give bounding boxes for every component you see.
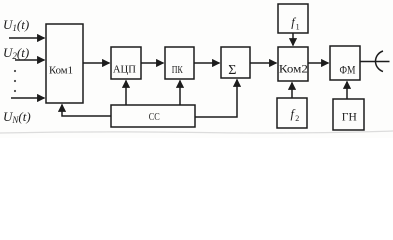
svg-text:UN(t): UN(t) (3, 109, 31, 125)
wire f1 to Kom2 (292, 33, 294, 46)
svg-text:АЦП: АЦП (113, 63, 136, 75)
block ADC (АЦП) (111, 47, 141, 79)
svg-text:1: 1 (296, 23, 300, 32)
block f1 (278, 4, 308, 33)
block Kom2 (278, 47, 308, 81)
antenna arc (375, 51, 383, 72)
block GN (ГН) (333, 99, 364, 130)
wire ADC to PK (141, 62, 164, 64)
faint scan streak (0, 131, 393, 133)
block Sigma (221, 47, 250, 78)
wire Kom2 to FM (308, 62, 329, 64)
wire input UN (11, 97, 45, 99)
block Kom1 (46, 24, 83, 103)
svg-text:U1(t): U1(t) (3, 17, 29, 33)
svg-text:Σ: Σ (228, 63, 236, 78)
svg-text:2: 2 (295, 114, 299, 123)
wire SS to PK (179, 81, 181, 106)
svg-text:Ком1: Ком1 (49, 66, 73, 77)
wire PK to Sigma (194, 62, 220, 64)
wire f2 to Kom2 (291, 83, 293, 99)
block FM (ФМ) (330, 46, 360, 80)
wire input U2 (15, 59, 45, 61)
svg-text:ГН: ГН (342, 111, 357, 123)
block f2 (277, 98, 307, 128)
wire SS to Sigma (195, 80, 237, 118)
wire GN to FM (346, 82, 348, 100)
wire SS to ADC (125, 81, 127, 106)
wire input U1 (9, 37, 45, 39)
svg-text:U2(t): U2(t) (3, 45, 29, 61)
dots between inputs (14, 70, 16, 72)
svg-text:Ком2: Ком2 (279, 61, 308, 75)
svg-text:СС: СС (149, 111, 160, 123)
wire Sigma to Kom2 (250, 62, 277, 64)
svg-text:ФМ: ФМ (340, 63, 356, 77)
wire SS to Kom1 (62, 105, 111, 117)
svg-text:ПК: ПК (172, 65, 184, 76)
wire FM to antenna (360, 61, 390, 63)
block SS (СС) (111, 105, 195, 127)
block PK (ПК) (165, 47, 194, 79)
wire Kom1 to ADC (83, 62, 110, 64)
